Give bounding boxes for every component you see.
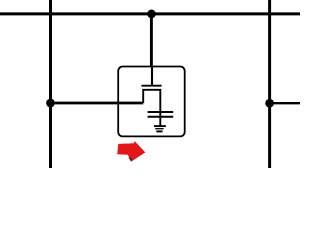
node: junction dot top center xyxy=(147,10,156,19)
wire: right vertical xyxy=(268,0,271,168)
transistor Q1: gate lead xyxy=(151,67,153,86)
transistor Q1: gate bar xyxy=(141,85,161,87)
DRAM cell box outline xyxy=(118,67,185,137)
wire: left middle horizontal from dot to cell xyxy=(51,102,144,105)
ground symbol xyxy=(154,126,166,131)
wire: center vertical from top dot to cell box xyxy=(150,14,153,67)
transistor Q1: channel path (source-drain) xyxy=(143,90,160,126)
red arrow pointer: dark shadow at lower head corner xyxy=(129,157,133,162)
red arrow pointer xyxy=(117,141,145,162)
wire: right middle horizontal from dot to edge xyxy=(270,102,300,104)
node: junction dot right middle xyxy=(265,99,274,108)
wire: top horizontal bus xyxy=(0,12,300,15)
capacitor C1: top plate xyxy=(148,111,174,113)
wire: left vertical xyxy=(49,0,52,168)
capacitor C1: bottom plate xyxy=(148,116,174,118)
node: junction dot left middle xyxy=(46,99,55,108)
